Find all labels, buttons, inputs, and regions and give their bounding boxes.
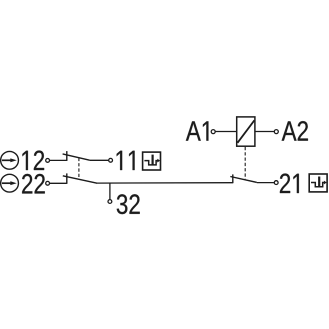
wire coil-A2 [255, 131, 274, 133]
relay coil K1 [237, 117, 255, 146]
terminal 32 [108, 200, 112, 204]
wire 11 [90, 159, 109, 161]
contact 3 blade [230, 177, 256, 183]
contact 2 fixed riser [66, 173, 68, 183]
forced-contact icon row2 [309, 174, 327, 192]
label 22 [22, 174, 45, 194]
bus wire to contact 21 [97, 182, 233, 184]
forced-contact icon row1 [143, 152, 161, 170]
terminal 22 [46, 181, 50, 185]
terminal 12 [46, 159, 50, 163]
wire 22 [50, 182, 67, 184]
label 32 [117, 194, 140, 214]
terminal 21 [274, 181, 278, 185]
contact 1 fixed riser [66, 151, 68, 161]
actuator symbol row1 [1, 151, 19, 169]
terminal A1 [211, 130, 215, 134]
mechanical link contacts (dashed) [78, 158, 80, 179]
wire A1-coil [215, 131, 237, 133]
contact 1 blade [63, 154, 90, 160]
label 21 [280, 174, 299, 194]
wire 21 [257, 182, 274, 184]
contact 3 fixed riser [232, 174, 234, 183]
label 12 [22, 151, 44, 171]
mechanical link coil to contact 21 (dashed) [244, 147, 246, 179]
wire 12 [50, 159, 67, 161]
label 11 [117, 151, 135, 170]
branch wire 32 [109, 183, 111, 200]
label A2 [282, 121, 308, 141]
label A1 [186, 121, 209, 140]
terminal A2 [274, 130, 278, 134]
terminal 11 [109, 158, 113, 162]
actuator symbol row2 [1, 174, 19, 192]
contact 2 blade [63, 176, 97, 183]
